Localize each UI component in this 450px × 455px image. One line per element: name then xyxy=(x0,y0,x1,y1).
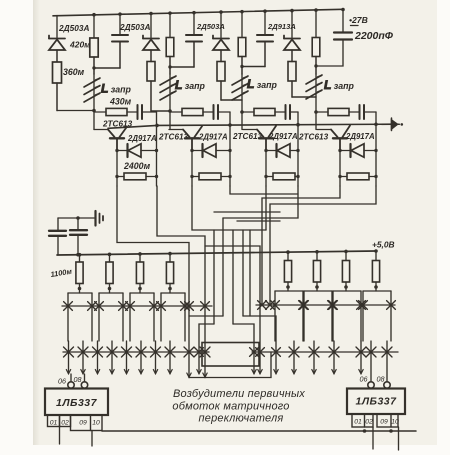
resistor below VD4 2Д913А xyxy=(288,62,296,82)
arrow tip xyxy=(292,370,296,374)
matrix winding tick row2 right xyxy=(313,341,315,374)
matrix cross xyxy=(299,301,308,310)
matrix winding tick row2 xyxy=(97,341,99,374)
wire IC1 pin01 down xyxy=(59,427,61,445)
pin circle IC2 06 xyxy=(368,382,374,388)
svg-text:L запр: L запр xyxy=(247,77,278,91)
resistor 1100м #4 xyxy=(166,262,173,284)
wire matrix row1 left line xyxy=(62,305,212,307)
matrix winding tick row2 right xyxy=(293,341,295,374)
matrix cross xyxy=(328,301,337,310)
junction on +5V bus xyxy=(315,250,319,254)
wire fountain column D xyxy=(242,230,244,316)
wire zener to resistor xyxy=(56,50,58,62)
svg-text:06: 06 xyxy=(360,375,368,384)
junction on +5V bus xyxy=(374,249,378,253)
junction on top bus xyxy=(290,9,294,13)
wire cell4 to base resistor xyxy=(316,111,328,113)
wire to base capacitor cell2 xyxy=(203,111,213,113)
svg-text:10: 10 xyxy=(391,419,399,426)
arrow tip xyxy=(258,370,262,374)
junction on top bus xyxy=(92,13,96,17)
arrow tip xyxy=(274,370,278,374)
resistor right #4 xyxy=(372,261,379,283)
wire maze m3 xyxy=(192,186,266,230)
wire to inductor branch node xyxy=(292,96,316,98)
junction on rail xyxy=(228,123,232,127)
svg-text:L запр: L запр xyxy=(101,82,132,96)
svg-text:2Д917А: 2Д917А xyxy=(345,132,375,141)
wire box left vertical cell2 xyxy=(191,151,193,187)
op-amp U2 1ЛБ337 box xyxy=(347,389,405,415)
arrow tip m1 xyxy=(187,373,191,377)
resistor cell3 top xyxy=(238,38,246,57)
pin box IC1 01 xyxy=(48,415,60,427)
wire resistor to matrix cell R2 xyxy=(316,282,318,291)
resistor 430м cell4 xyxy=(328,108,349,115)
svg-text:L запр: L запр xyxy=(324,78,355,92)
capacitor C2 branch wire xyxy=(193,13,195,35)
wire cap C6 bottom to +5V bus xyxy=(77,235,79,255)
resistor 1100м #2 xyxy=(106,262,113,284)
wire capacitor C1 down xyxy=(119,42,121,69)
wire maze m7 xyxy=(262,186,340,305)
junction at cell4 node xyxy=(314,64,317,67)
base capacitor cell3 xyxy=(286,105,291,119)
wire capacitor to right vertical cell1 xyxy=(142,111,157,113)
ground symbol GND xyxy=(96,211,104,226)
wire fountain arm right y324 xyxy=(233,324,254,374)
matrix cross xyxy=(329,301,338,310)
svg-text:обмоток матричного: обмоток матричного xyxy=(172,401,289,413)
matrix cross xyxy=(258,301,267,310)
zener diode VD4 2Д913А xyxy=(284,36,300,51)
node cell1 xyxy=(92,109,96,113)
wire to base capacitor cell1 xyxy=(127,111,137,113)
arrow tip xyxy=(168,370,172,374)
wire top +27V bus xyxy=(53,9,343,16)
zener diode VD2 2Д503А xyxy=(143,36,159,51)
wire resistor to matrix cell 1 xyxy=(79,284,81,294)
junction on top bus xyxy=(341,8,345,12)
matrix cross xyxy=(93,347,103,357)
inductor L2 запр strokes xyxy=(160,76,176,100)
matrix cross xyxy=(250,348,259,357)
capacitor C3 branch wire xyxy=(264,11,266,34)
matrix cell R2 right leg xyxy=(331,291,333,341)
connector dot xyxy=(401,123,404,126)
wire base feed horizontal cell3 xyxy=(243,129,257,131)
wire from bus to zener VD4 2Д913А xyxy=(291,11,293,38)
arrow tip xyxy=(197,370,201,374)
wire maze m1 xyxy=(117,186,189,378)
junction xyxy=(92,66,95,69)
wire fountain column A xyxy=(213,230,215,324)
svg-text:01: 01 xyxy=(50,420,58,427)
wire bus to resistor cell2 xyxy=(169,13,171,37)
svg-text:переключателя: переключателя xyxy=(199,413,284,425)
resistor 2400м cell2 xyxy=(192,176,199,178)
arrow tip xyxy=(312,370,316,374)
svg-text:06: 06 xyxy=(58,377,66,386)
wire to base capacitor cell3 xyxy=(275,111,285,113)
resistor below VD2 2Д503А xyxy=(147,62,155,82)
resistor 2400м cell1 xyxy=(117,176,124,178)
matrix cross xyxy=(88,302,97,311)
wire zener to resistor xyxy=(220,50,222,62)
wire ground node horizontal xyxy=(58,217,94,219)
wire maze m5 xyxy=(265,186,267,230)
wire diode to right vertical cell2 xyxy=(216,150,230,152)
wire fountain arm left y324 xyxy=(199,324,214,374)
node cell4 xyxy=(314,110,318,114)
wire bus to resistor cell4 xyxy=(315,10,317,37)
wire box right vertical cell2 xyxy=(229,125,231,186)
wire capacitor C3 down xyxy=(264,42,266,67)
wire maze m8 xyxy=(270,186,376,305)
svg-text:01: 01 xyxy=(354,419,362,426)
matrix winding tick row2 xyxy=(140,341,142,374)
wire capacitor C1 to node xyxy=(94,67,120,69)
node cell2 xyxy=(168,109,172,113)
diode VD8 2Д917А xyxy=(351,144,365,157)
wire matrix row2 left line xyxy=(63,351,209,353)
matrix cross xyxy=(119,302,128,311)
matrix cell L1 left leg xyxy=(67,293,69,341)
arrow tip xyxy=(124,370,128,374)
wire cell1 to base resistor xyxy=(94,111,106,113)
wire box right vertical cell4 xyxy=(375,125,377,186)
matrix cross xyxy=(356,347,366,357)
arrow tip xyxy=(95,370,99,374)
wire capacitor to right vertical cell2 xyxy=(218,111,230,113)
pin box IC1 09-10 xyxy=(71,415,103,431)
matrix cross xyxy=(357,301,366,310)
svg-text:1ЛБ337: 1ЛБ337 xyxy=(355,396,397,408)
wire maze m10 xyxy=(205,246,260,374)
wire inductor L4 down xyxy=(315,74,317,112)
wire resistor to matrix cell 3 xyxy=(139,284,141,294)
wire resistor to matrix cell 4 xyxy=(169,284,171,294)
svg-text:08: 08 xyxy=(74,375,82,384)
matrix cross xyxy=(195,348,204,357)
wire from bus to zener VD3 2Д503А xyxy=(220,12,222,37)
wire common rail to connector xyxy=(108,124,393,128)
pin divider IC2 a xyxy=(364,414,366,427)
wire capacitor to right vertical cell4 xyxy=(364,111,376,113)
svg-text:2ТС613: 2ТС613 xyxy=(232,132,263,141)
wire box left vertical cell1 xyxy=(116,151,118,187)
junction on +5V bus xyxy=(286,250,290,254)
wire fountain arm right y316 xyxy=(243,316,276,374)
pin circle IC1 06 xyxy=(68,382,74,388)
svg-text:2Д917А: 2Д917А xyxy=(268,132,298,141)
wire fountain T-box xyxy=(202,343,259,367)
arrow tip xyxy=(153,370,157,374)
svg-text:2200пФ: 2200пФ xyxy=(354,30,394,42)
wire maze m2 xyxy=(157,186,205,378)
wire box left vertical cell3 xyxy=(265,151,267,187)
matrix winding tick row2 xyxy=(82,341,84,374)
svg-text:2Д503А: 2Д503А xyxy=(58,23,89,33)
pin divider IC1 xyxy=(90,415,92,431)
junction on rail xyxy=(296,123,300,127)
pin box IC1 02 xyxy=(60,415,71,427)
wire resistor to inductor xyxy=(315,57,317,75)
resistor 2400м cell4 xyxy=(340,176,347,178)
wire zener to resistor xyxy=(150,50,152,62)
wire fountain arm left y316 xyxy=(189,315,223,317)
junction on +5V bus xyxy=(138,252,142,256)
wire +5,0V bus xyxy=(57,251,376,255)
arrow tip xyxy=(252,370,256,374)
wire base feed horizontal cell4 xyxy=(317,129,331,131)
wire cap C5 bottom to +5V bus xyxy=(57,236,59,255)
wire inductor L3 down xyxy=(241,74,243,112)
svg-text:360м: 360м xyxy=(63,67,85,77)
diode VD5 2Д917А xyxy=(128,144,142,157)
wire resistor down to node xyxy=(220,81,222,100)
transistor Q2 2ТС613 xyxy=(183,126,202,150)
wire cell2 right vertical to rail xyxy=(229,112,231,125)
resistor right #3 xyxy=(342,261,349,283)
svg-text:L запр: L запр xyxy=(175,78,206,92)
matrix cross xyxy=(309,347,319,357)
wire matrix row2 right line xyxy=(252,351,398,353)
wire box top-left cell2 xyxy=(192,150,202,152)
junction on +5V bus xyxy=(76,253,80,257)
wire resistor down to node xyxy=(291,81,293,97)
wire bus to resistor 1100м #2 xyxy=(109,254,111,262)
wire to inductor branch node xyxy=(221,99,242,101)
base capacitor cell1 xyxy=(138,105,143,119)
wire diode to right vertical cell4 xyxy=(364,150,376,152)
svg-text:2ТС613: 2ТС613 xyxy=(298,133,329,142)
matrix cross xyxy=(64,302,73,311)
wire resistor to matrix cell 2 xyxy=(109,284,111,294)
matrix cell R4 left leg xyxy=(362,291,364,341)
matrix cell R4 top xyxy=(363,290,391,292)
svg-text:02: 02 xyxy=(365,419,373,426)
svg-text:2ТС613: 2ТС613 xyxy=(102,120,133,129)
junction on rail xyxy=(374,123,378,127)
wire inductor L1 down xyxy=(93,74,95,111)
wire box left vertical cell4 xyxy=(339,151,341,187)
junction on +5V bus xyxy=(344,250,348,254)
arrow tip m2 xyxy=(203,373,207,377)
capacitor C1 branch wire xyxy=(119,14,121,34)
wire cell1 base feed down xyxy=(93,111,95,130)
matrix winding tick row2 xyxy=(155,341,157,374)
matrix cell R3 right leg xyxy=(360,291,362,341)
matrix cell L3 right leg xyxy=(153,293,155,341)
wire cell3 right vertical to rail xyxy=(297,112,299,125)
matrix cross xyxy=(157,302,166,311)
resistor 2400м cell3 xyxy=(266,176,273,178)
matrix cell L4 top xyxy=(161,292,185,294)
node cell3 xyxy=(240,110,244,114)
matrix cell R1 left leg xyxy=(274,291,276,341)
arrow tip xyxy=(332,370,336,374)
wire resistor to inductor xyxy=(241,57,243,75)
pin circle IC2 08 xyxy=(384,382,390,388)
wire base feed horizontal cell1 xyxy=(94,129,108,131)
wire IC1 pin09 down xyxy=(91,431,93,447)
arrow tip xyxy=(81,370,85,374)
wire resistor R1 down xyxy=(56,83,58,111)
wire base feed horizontal cell2 xyxy=(169,129,183,131)
wire fountain outer bottom xyxy=(189,352,271,378)
matrix cross xyxy=(184,347,194,357)
matrix cell L1 right leg xyxy=(91,293,93,341)
matrix cross xyxy=(200,347,210,357)
svg-text:430м: 430м xyxy=(109,97,132,107)
wire inductor L2 down xyxy=(169,74,171,111)
wire to base capacitor cell4 xyxy=(349,111,359,113)
matrix cross xyxy=(151,347,161,357)
wire cell3 to base resistor xyxy=(242,111,254,113)
matrix cell R3 top xyxy=(333,290,361,292)
wire resistor to matrix cell R1 xyxy=(287,282,289,291)
matrix cross xyxy=(64,347,74,357)
capacitor C4 2200пФ xyxy=(334,33,352,40)
matrix cross xyxy=(387,301,396,310)
wire maze m4 xyxy=(230,186,298,194)
wire resistor to matrix cell R3 xyxy=(345,282,347,291)
resistor 1100м #3 xyxy=(136,262,143,284)
wire bus end down to C4 2200пФ xyxy=(342,9,344,31)
svg-text:2Д917А: 2Д917А xyxy=(127,134,157,143)
zener diode VD3 2Д503А xyxy=(213,36,229,51)
resistor 430м cell2 xyxy=(182,108,203,115)
wire bus to resistor 1100м #3 xyxy=(139,254,141,262)
wire fountain column C xyxy=(232,230,234,324)
wire bus to resistor cell3 xyxy=(241,12,243,37)
svg-text:420м: 420м xyxy=(69,40,91,50)
matrix cross xyxy=(359,301,368,310)
wire maze m6 xyxy=(223,186,298,218)
wire to IC1 pin 08 xyxy=(84,374,86,382)
matrix cross xyxy=(126,302,135,311)
matrix cell L3 left leg xyxy=(129,293,131,341)
transistor Q1 2ТС613 xyxy=(108,127,127,151)
wire resistor to inductor xyxy=(169,57,171,75)
zener diode VD1 2Д503А xyxy=(49,36,65,51)
wire cell3 base feed down xyxy=(241,112,243,130)
svg-text:2Д503А: 2Д503А xyxy=(196,22,225,31)
resistor below VD3 2Д503А xyxy=(217,62,225,82)
matrix cell L4 right leg xyxy=(184,293,186,341)
wire cap C5 top xyxy=(57,218,59,230)
junction on top bus xyxy=(168,11,172,15)
capacitor C6 xyxy=(70,230,87,235)
pin box IC2 09-10 xyxy=(377,414,398,427)
wire capacitor C2 down xyxy=(193,42,195,68)
resistor 430м cell3 xyxy=(254,108,275,115)
svg-text:09: 09 xyxy=(79,420,87,427)
svg-text:2400м: 2400м xyxy=(123,161,151,171)
matrix cross xyxy=(300,301,309,310)
matrix cross xyxy=(136,347,146,357)
svg-text:08: 08 xyxy=(377,375,385,384)
svg-text:2Д917А: 2Д917А xyxy=(198,133,228,142)
wire box top-left cell1 xyxy=(117,150,127,152)
matrix cross xyxy=(382,347,392,357)
inductor L4 запр strokes xyxy=(306,75,322,99)
resistor 430м cell1 xyxy=(106,108,127,115)
connector chassis arrow X1 xyxy=(392,118,400,131)
wire capacitor C3 to node xyxy=(242,66,265,68)
wire box right vertical cell1 xyxy=(156,125,158,186)
wire bus to resistor R2 420м xyxy=(93,15,95,38)
wire cell4 right vertical to rail xyxy=(375,112,377,125)
wire diode to right vertical cell1 xyxy=(141,150,157,152)
matrix cell L2 left leg xyxy=(98,293,100,341)
matrix winding tick row2 xyxy=(111,341,113,374)
matrix cell R4 right leg xyxy=(390,291,392,341)
wire C4 down to node xyxy=(316,40,343,67)
matrix cross xyxy=(95,302,104,311)
wire to inductor branch node xyxy=(151,110,170,112)
wire cell4 base feed down xyxy=(315,112,317,130)
resistor cell4 top xyxy=(312,38,320,57)
matrix winding tick row2 xyxy=(126,341,128,374)
wire maze filler h212 xyxy=(214,211,280,213)
wire R2 to inductor L1 xyxy=(93,57,95,74)
resistor R2 420м xyxy=(90,38,98,57)
matrix cell L1 top xyxy=(68,292,92,294)
wire IC2 pin02 down xyxy=(372,427,374,449)
wire bus to resistor right #2 xyxy=(316,252,318,261)
matrix cross xyxy=(165,347,175,357)
wire from bus to zener VD2 2Д503А xyxy=(150,14,152,38)
wire to IC1 pin 06 xyxy=(70,374,72,382)
svg-text:1ЛБ337: 1ЛБ337 xyxy=(56,397,98,409)
wire resistor to matrix cell R4 xyxy=(375,282,377,291)
svg-text:+5,0В: +5,0В xyxy=(372,240,395,250)
junction on top bus xyxy=(149,12,153,16)
svg-text:2Д913А: 2Д913А xyxy=(267,22,296,31)
resistor right #2 xyxy=(313,261,320,283)
wire box right vertical cell3 xyxy=(297,125,299,186)
wire cell2 to base resistor xyxy=(170,111,182,113)
wire bottom long line xyxy=(102,430,416,432)
wire zener to resistor xyxy=(291,50,293,62)
wire maze filler h221 xyxy=(237,220,280,222)
pin divider IC2 b xyxy=(390,414,392,427)
base capacitor cell4 xyxy=(360,105,365,119)
svg-text:02: 02 xyxy=(61,420,69,427)
wire diode to right vertical cell3 xyxy=(290,150,298,152)
matrix cell L3 top xyxy=(130,292,154,294)
wire box top-left cell4 xyxy=(340,150,350,152)
matrix cross xyxy=(366,347,376,357)
wire capacitor C2 to node xyxy=(170,66,194,68)
matrix cross xyxy=(201,302,210,311)
matrix cross xyxy=(150,302,159,311)
wire to IC2 pin 06 xyxy=(370,341,372,382)
matrix cross xyxy=(181,302,190,311)
wire bus to resistor right #4 xyxy=(375,251,377,261)
svg-text:10: 10 xyxy=(92,420,100,427)
junction IC2 on bottom line b xyxy=(389,429,393,433)
wire fountain column E xyxy=(249,230,251,316)
matrix cross xyxy=(185,302,194,311)
junction on +5V bus xyxy=(168,252,172,256)
matrix cell R1 top xyxy=(275,290,303,292)
capacitor C1 xyxy=(112,35,128,42)
junction ground node xyxy=(76,216,80,220)
